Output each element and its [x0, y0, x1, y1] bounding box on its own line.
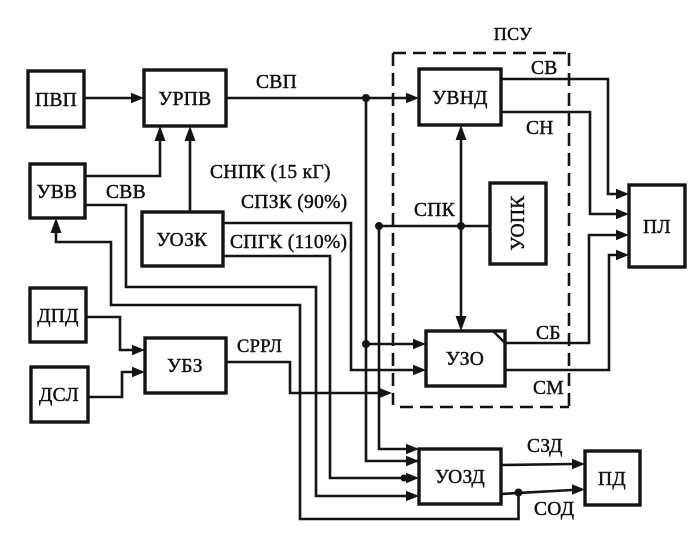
wire SV (СВ) UVND to PL — [501, 79, 629, 199]
svg-text:СОД: СОД — [534, 499, 574, 520]
wire DSL to UBZ — [88, 367, 145, 397]
svg-text:ПСУ: ПСУ — [494, 24, 532, 44]
wire SVV (СВВ) UVV to UOZD — [85, 205, 419, 501]
wire PVP to URPV — [84, 93, 144, 103]
block PD (ПД) — [585, 451, 640, 505]
block PL (ПЛ) — [629, 185, 685, 267]
dashed box PSU (ПСУ) — [393, 53, 569, 407]
wire SVP branch down to UZO and UOZD — [366, 98, 419, 466]
block DSL (ДСЛ) — [31, 367, 88, 422]
junction dot SPK vertical — [457, 222, 465, 230]
block DPD (ДПД) — [30, 288, 86, 342]
svg-text:УБЗ: УБЗ — [167, 356, 203, 377]
svg-text:ПВП: ПВП — [35, 90, 77, 111]
wire SRRL (СРРЛ) UBZ to PSU — [226, 362, 392, 398]
wire SPGK (СПГК) UOZK to UOZD — [223, 256, 419, 483]
svg-text:УВНД: УВНД — [432, 88, 487, 109]
block UVV (УВВ) — [30, 164, 85, 218]
svg-text:ПД: ПД — [598, 469, 626, 490]
wire SNPK (СНПК) UOZK to URPV — [185, 126, 196, 212]
wire SOD feedback to UVV — [51, 218, 519, 519]
wire SVP branch into UZO — [366, 339, 426, 349]
svg-text:СВ: СВ — [531, 58, 558, 79]
wire SB (СБ) UZO to PL — [505, 230, 629, 343]
junction blob on SPGK line — [401, 475, 408, 482]
junction dot SOD — [515, 489, 523, 497]
wire SPK to UVND and UZO — [456, 125, 467, 331]
block URPV (УРПВ) — [144, 70, 226, 126]
svg-text:СБ: СБ — [536, 323, 561, 344]
wire DPD to UBZ — [86, 317, 145, 355]
svg-text:СРРЛ: СРРЛ — [237, 337, 282, 357]
svg-text:СМ: СМ — [533, 378, 564, 399]
wire SVP (СВП) URPV to UVND — [226, 93, 419, 103]
wire UVV to URPV — [85, 126, 166, 176]
block PVP (ПВП) — [28, 71, 84, 127]
svg-text:УВВ: УВВ — [37, 182, 78, 203]
block UOZD (УОЗД) — [419, 449, 501, 504]
wire SZD (СЗД) UOZD to PD — [501, 459, 585, 469]
block UZO (УЗО) — [426, 331, 506, 386]
block UOZK (УОЗК) — [142, 212, 223, 266]
svg-text:ПЛ: ПЛ — [643, 217, 671, 238]
junction dot SVP to UZO — [362, 340, 370, 348]
svg-text:УЗО: УЗО — [446, 349, 484, 370]
svg-text:СПЗК (90%): СПЗК (90%) — [241, 192, 347, 213]
wire SPZK (СПЗК) UOZK to UZO — [223, 223, 426, 375]
svg-text:ДПД: ДПД — [37, 306, 79, 327]
svg-text:СВП: СВП — [256, 72, 297, 93]
svg-text:УРПВ: УРПВ — [159, 89, 212, 110]
junction dot SVP branch — [362, 94, 370, 102]
block UOPK (УОПК) rotated text — [490, 183, 546, 264]
svg-text:СНПК (15 кГ): СНПК (15 кГ) — [210, 162, 331, 183]
svg-text:СВВ: СВВ — [106, 182, 146, 203]
svg-text:СПК: СПК — [414, 200, 456, 221]
svg-text:СЗД: СЗД — [527, 436, 563, 457]
svg-text:УОЗК: УОЗК — [157, 230, 209, 251]
svg-text:УОПК: УОПК — [508, 195, 529, 251]
wire SN (СН) UVND to PL — [501, 112, 629, 219]
block UBZ (УБЗ) — [145, 338, 226, 393]
wire SOD (СОД) UOZD to PD — [501, 484, 585, 494]
svg-text:ДСЛ: ДСЛ — [39, 385, 79, 406]
svg-text:СН: СН — [526, 118, 554, 139]
wire SPK (СПК) from UOPK — [379, 226, 490, 454]
svg-text:СПГК (110%): СПГК (110%) — [230, 232, 347, 253]
junction dot SPK corner — [375, 222, 383, 230]
svg-text:УОЗД: УОЗД — [435, 467, 485, 488]
wire SM (СМ) UZO to PL — [505, 250, 629, 370]
block UVND (УВНД) — [419, 69, 501, 125]
